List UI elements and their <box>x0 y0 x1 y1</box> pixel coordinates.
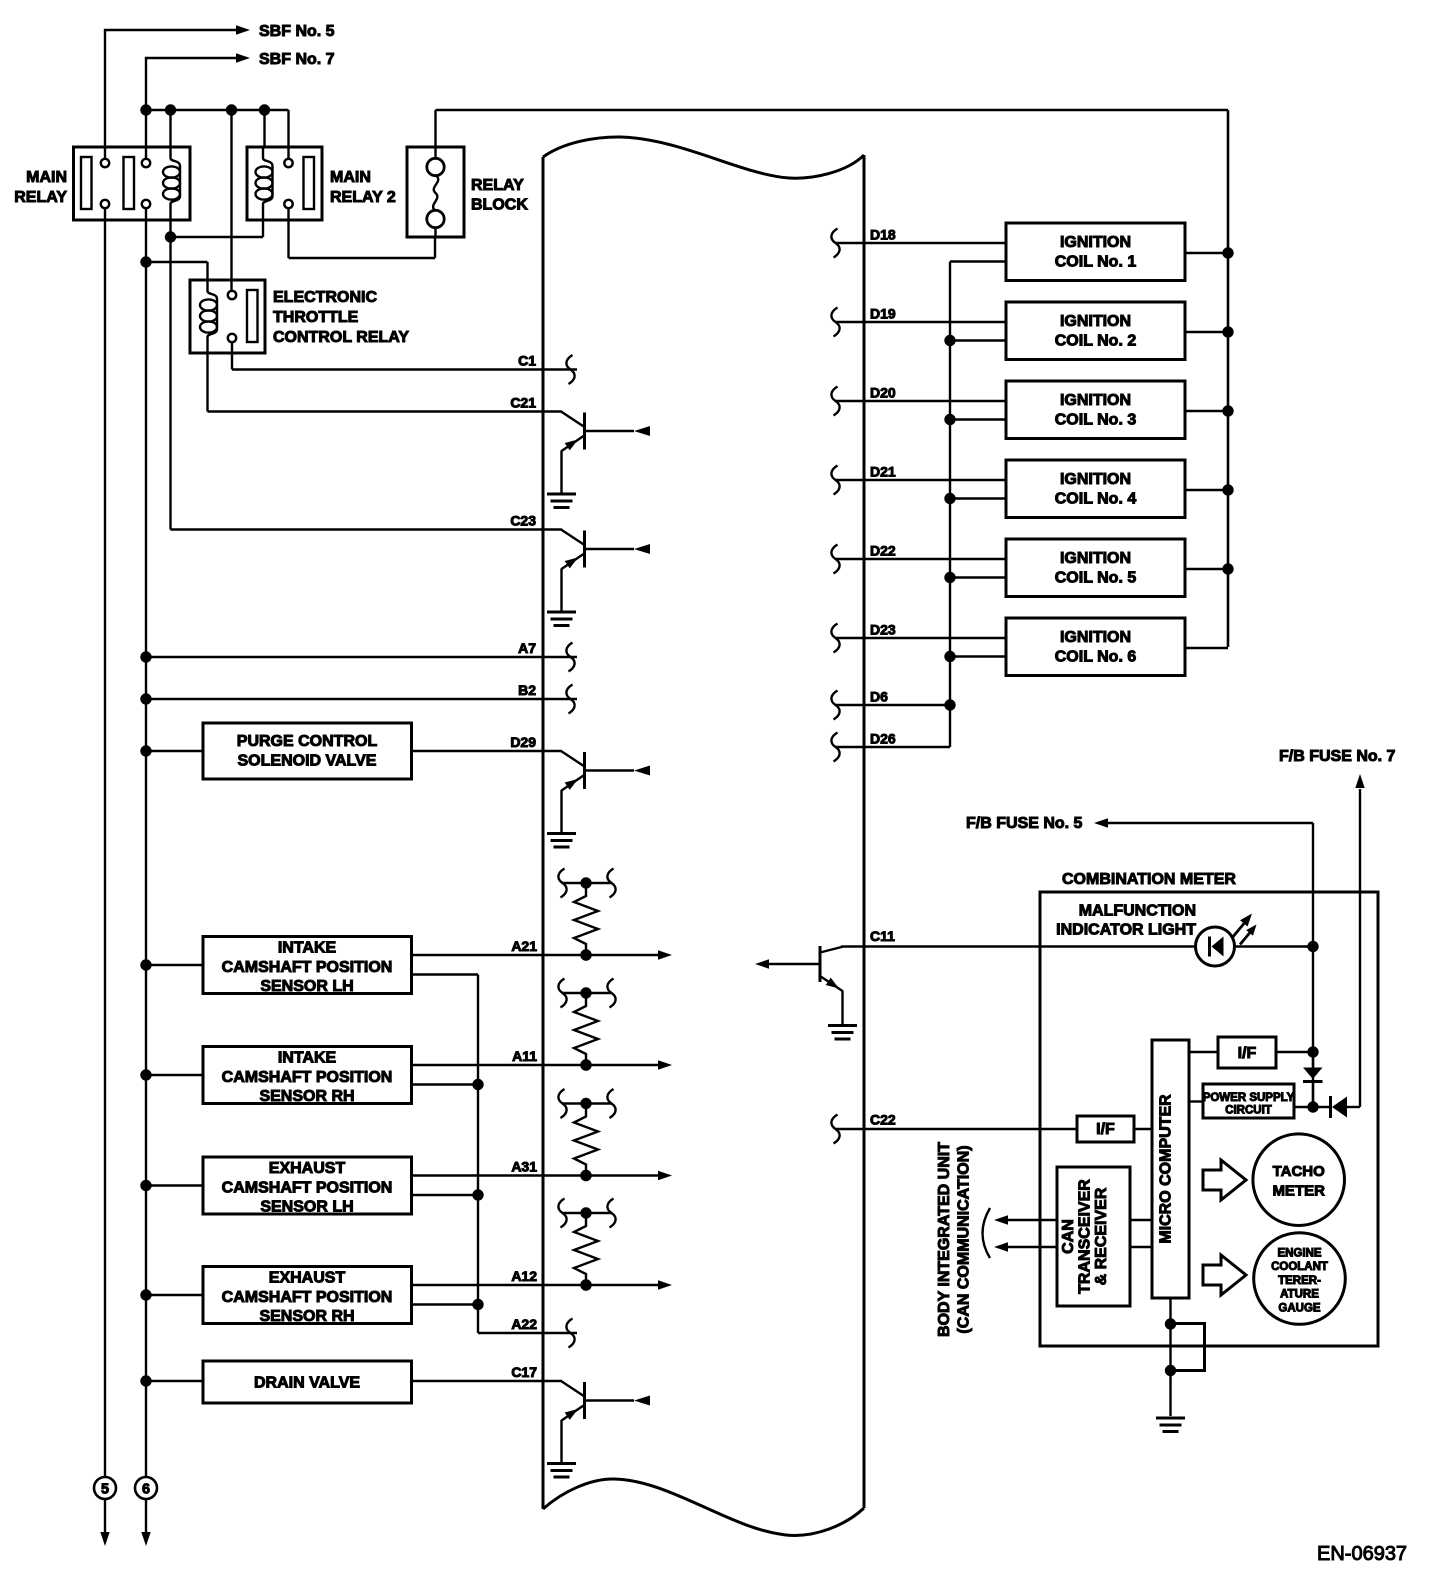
svg-text:A12: A12 <box>511 1268 537 1284</box>
svg-text:SENSOR LH: SENSOR LH <box>260 978 353 995</box>
svg-text:MAIN: MAIN <box>330 169 371 186</box>
svg-text:IGNITION: IGNITION <box>1060 234 1131 251</box>
svg-text:INDICATOR LIGHT: INDICATOR LIGHT <box>1056 922 1196 939</box>
svg-text:D21: D21 <box>870 464 896 480</box>
svg-text:6: 6 <box>142 1482 150 1498</box>
svg-text:EXHAUST: EXHAUST <box>269 1160 346 1177</box>
svg-text:ATURE: ATURE <box>1280 1289 1319 1301</box>
svg-text:CAMSHAFT POSITION: CAMSHAFT POSITION <box>222 1069 393 1086</box>
svg-text:GAUGE: GAUGE <box>1278 1303 1321 1315</box>
svg-text:CAN: CAN <box>1060 1219 1077 1254</box>
svg-text:D29: D29 <box>510 734 536 750</box>
svg-text:COOLANT: COOLANT <box>1271 1261 1328 1273</box>
svg-text:A11: A11 <box>512 1048 537 1064</box>
svg-text:(CAN COMMUNICATION): (CAN COMMUNICATION) <box>956 1145 973 1333</box>
svg-text:ELECTRONIC: ELECTRONIC <box>273 289 377 306</box>
svg-text:TACHO: TACHO <box>1273 1163 1326 1180</box>
svg-text:COIL No. 1: COIL No. 1 <box>1055 254 1137 271</box>
svg-text:A22: A22 <box>511 1316 537 1332</box>
svg-text:COIL No. 4: COIL No. 4 <box>1055 491 1137 508</box>
svg-text:INTAKE: INTAKE <box>278 940 337 957</box>
svg-text:EXHAUST: EXHAUST <box>269 1270 346 1287</box>
svg-text:C1: C1 <box>518 353 536 369</box>
svg-text:METER: METER <box>1272 1183 1325 1200</box>
svg-text:MICRO COMPUTER: MICRO COMPUTER <box>1158 1094 1175 1244</box>
svg-text:SENSOR LH: SENSOR LH <box>260 1199 353 1216</box>
svg-text:IGNITION: IGNITION <box>1060 392 1131 409</box>
svg-text:SENSOR RH: SENSOR RH <box>259 1308 354 1325</box>
svg-text:PURGE CONTROL: PURGE CONTROL <box>237 733 378 750</box>
svg-text:F/B FUSE No. 5: F/B FUSE No. 5 <box>966 815 1083 832</box>
svg-text:CAMSHAFT POSITION: CAMSHAFT POSITION <box>222 1289 393 1306</box>
svg-text:IGNITION: IGNITION <box>1060 313 1131 330</box>
svg-text:5: 5 <box>101 1482 109 1498</box>
svg-text:CAMSHAFT POSITION: CAMSHAFT POSITION <box>222 1179 393 1196</box>
svg-text:A21: A21 <box>511 938 537 954</box>
svg-text:SENSOR RH: SENSOR RH <box>259 1088 354 1105</box>
svg-text:RELAY 2: RELAY 2 <box>330 189 396 206</box>
svg-text:CIRCUIT: CIRCUIT <box>1225 1105 1272 1117</box>
svg-text:TERER-: TERER- <box>1278 1275 1321 1287</box>
svg-text:F/B FUSE No. 7: F/B FUSE No. 7 <box>1279 748 1396 765</box>
svg-text:DRAIN VALVE: DRAIN VALVE <box>254 1375 360 1392</box>
svg-text:COIL No. 6: COIL No. 6 <box>1055 649 1137 666</box>
svg-text:D19: D19 <box>870 306 896 322</box>
svg-text:RELAY: RELAY <box>14 189 67 206</box>
svg-text:SOLENOID VALVE: SOLENOID VALVE <box>238 753 377 770</box>
svg-text:C17: C17 <box>511 1364 537 1380</box>
svg-text:SBF No. 5: SBF No. 5 <box>259 23 335 40</box>
svg-text:RELAY: RELAY <box>471 177 524 194</box>
svg-text:A7: A7 <box>518 640 536 656</box>
svg-text:D18: D18 <box>870 227 896 243</box>
svg-text:D23: D23 <box>870 622 896 638</box>
svg-text:D20: D20 <box>870 385 896 401</box>
svg-text:SBF No. 7: SBF No. 7 <box>259 51 335 68</box>
svg-text:BODY INTEGRATED UNIT: BODY INTEGRATED UNIT <box>936 1142 953 1337</box>
svg-text:MAIN: MAIN <box>26 169 67 186</box>
svg-text:IGNITION: IGNITION <box>1060 550 1131 567</box>
svg-text:C23: C23 <box>510 513 536 529</box>
svg-text:CONTROL RELAY: CONTROL RELAY <box>273 329 409 346</box>
svg-text:ENGINE: ENGINE <box>1277 1247 1321 1259</box>
svg-text:D26: D26 <box>870 731 896 747</box>
svg-text:I/F: I/F <box>1096 1121 1115 1138</box>
svg-text:D6: D6 <box>870 689 888 705</box>
svg-text:C21: C21 <box>510 395 536 411</box>
svg-text:CAMSHAFT POSITION: CAMSHAFT POSITION <box>222 959 393 976</box>
svg-text:COIL No. 3: COIL No. 3 <box>1055 412 1137 429</box>
svg-text:COIL No. 5: COIL No. 5 <box>1055 570 1137 587</box>
svg-text:C11: C11 <box>870 928 895 944</box>
svg-text:COMBINATION METER: COMBINATION METER <box>1062 871 1236 888</box>
svg-text:INTAKE: INTAKE <box>278 1050 337 1067</box>
svg-text:TRANSCEIVER: TRANSCEIVER <box>1077 1179 1094 1294</box>
svg-text:A31: A31 <box>511 1159 537 1175</box>
svg-text:MALFUNCTION: MALFUNCTION <box>1079 903 1196 920</box>
svg-text:D22: D22 <box>870 543 896 559</box>
svg-text:IGNITION: IGNITION <box>1060 471 1131 488</box>
svg-text:IGNITION: IGNITION <box>1060 629 1131 646</box>
svg-text:C22: C22 <box>870 1112 896 1128</box>
svg-text:EN-06937: EN-06937 <box>1317 1543 1407 1565</box>
svg-text:BLOCK: BLOCK <box>471 197 528 214</box>
svg-text:B2: B2 <box>518 682 536 698</box>
svg-text:COIL No. 2: COIL No. 2 <box>1055 333 1137 350</box>
svg-text:& RECEIVER: & RECEIVER <box>1093 1187 1110 1285</box>
svg-text:THROTTLE: THROTTLE <box>273 309 359 326</box>
svg-text:POWER SUPPLY: POWER SUPPLY <box>1203 1092 1295 1104</box>
svg-text:I/F: I/F <box>1238 1045 1257 1062</box>
